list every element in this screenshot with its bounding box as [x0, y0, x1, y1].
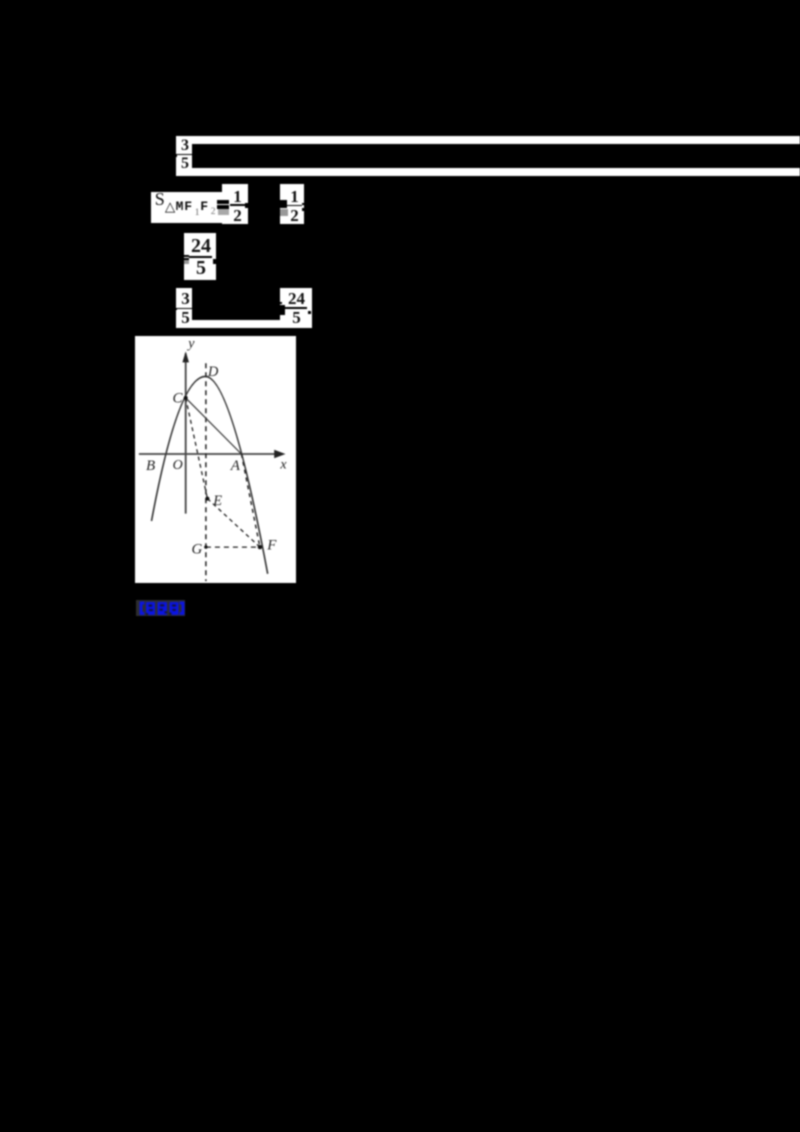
svg-text:G: G — [192, 541, 203, 557]
svg-text:E: E — [212, 492, 222, 508]
svg-text:B: B — [146, 457, 155, 473]
svg-text:x: x — [280, 457, 288, 472]
svg-text:y: y — [186, 336, 195, 351]
svg-text:A: A — [230, 458, 241, 474]
svg-text:D: D — [207, 364, 219, 380]
svg-text:F: F — [266, 537, 277, 553]
svg-text:C: C — [173, 390, 184, 406]
svg-text:O: O — [173, 457, 183, 472]
